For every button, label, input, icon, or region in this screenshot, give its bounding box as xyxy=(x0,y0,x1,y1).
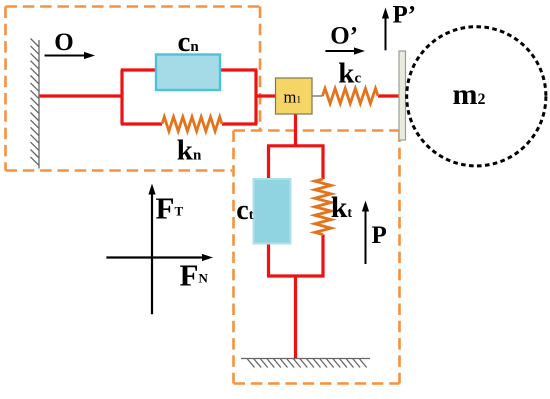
svg-text:P’: P’ xyxy=(393,2,417,29)
svg-text:O: O xyxy=(54,29,73,56)
svg-text:P: P xyxy=(372,222,387,249)
svg-text:O’: O’ xyxy=(330,22,358,49)
